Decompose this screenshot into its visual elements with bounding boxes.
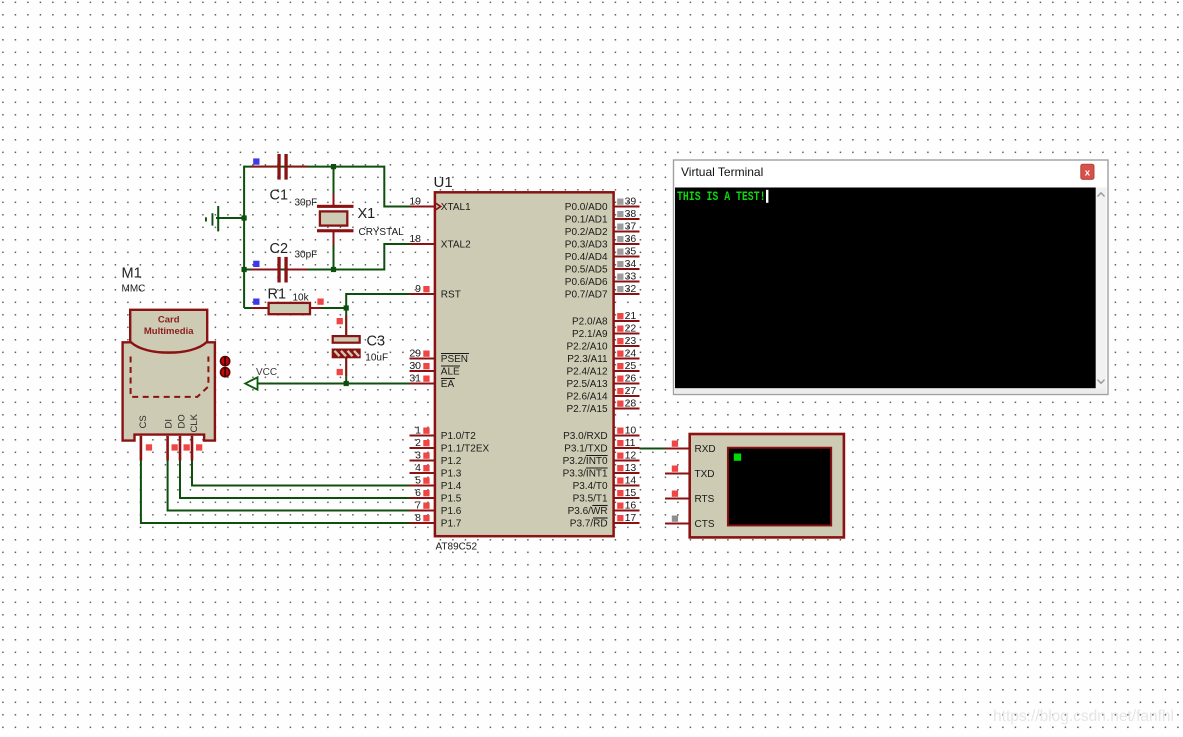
svg-text:26: 26: [625, 373, 637, 385]
svg-text:17: 17: [625, 512, 637, 524]
svg-text:35: 35: [625, 246, 637, 258]
svg-text:THIS IS A TEST!: THIS IS A TEST!: [677, 190, 766, 204]
svg-text:P1.7: P1.7: [441, 519, 462, 530]
svg-text:36: 36: [625, 233, 637, 245]
svg-text:18: 18: [409, 233, 421, 245]
svg-text:AT89C52: AT89C52: [436, 542, 478, 553]
svg-text:12: 12: [625, 450, 637, 462]
svg-text:P0.2/AD2: P0.2/AD2: [565, 227, 608, 238]
svg-text:P1.3: P1.3: [441, 469, 462, 480]
svg-text:25: 25: [625, 360, 637, 372]
svg-text:C1: C1: [270, 188, 289, 204]
svg-text:RST: RST: [441, 290, 461, 301]
svg-text:27: 27: [625, 385, 637, 397]
svg-text:32: 32: [625, 283, 637, 295]
svg-text:P3.5/T1: P3.5/T1: [573, 494, 608, 505]
svg-text:13: 13: [625, 462, 637, 474]
svg-text:38: 38: [625, 208, 637, 220]
svg-text:21: 21: [625, 310, 637, 322]
svg-text:P2.5/A13: P2.5/A13: [566, 379, 608, 390]
svg-text:RTS: RTS: [695, 494, 715, 505]
svg-text:P0.6/AD6: P0.6/AD6: [565, 277, 608, 288]
svg-text:P1.6: P1.6: [441, 506, 462, 517]
svg-text:P2.7/A15: P2.7/A15: [566, 404, 608, 415]
svg-text:U1: U1: [434, 174, 453, 191]
svg-text:1: 1: [415, 425, 421, 437]
svg-text:CLK: CLK: [189, 413, 200, 432]
svg-text:34: 34: [625, 258, 637, 270]
svg-text:P3.7/RD: P3.7/RD: [570, 519, 608, 530]
svg-text:9: 9: [415, 283, 421, 295]
svg-text:P2.2/A10: P2.2/A10: [566, 342, 608, 353]
svg-text:24: 24: [625, 348, 637, 360]
svg-text:16: 16: [625, 500, 637, 512]
svg-text:EA: EA: [441, 379, 455, 390]
svg-text:30pF: 30pF: [295, 250, 318, 261]
svg-text:M1: M1: [122, 266, 142, 282]
svg-text:P3.3/INT1: P3.3/INT1: [563, 469, 608, 480]
svg-text:3: 3: [415, 450, 421, 462]
svg-text:23: 23: [625, 335, 637, 347]
svg-text:Multimedia: Multimedia: [144, 326, 194, 337]
svg-text:P0.5/AD5: P0.5/AD5: [565, 265, 608, 276]
svg-text:6: 6: [415, 487, 421, 499]
svg-text:P2.0/A8: P2.0/A8: [572, 317, 608, 328]
svg-text:19: 19: [409, 196, 421, 208]
svg-text:P2.6/A14: P2.6/A14: [566, 392, 608, 403]
svg-text:P1.1/T2EX: P1.1/T2EX: [441, 444, 490, 455]
svg-text:P1.0/T2: P1.0/T2: [441, 431, 476, 442]
svg-text:10uF: 10uF: [365, 353, 388, 364]
svg-text:ALE: ALE: [441, 367, 460, 378]
svg-text:5: 5: [415, 475, 421, 487]
svg-text:30pF: 30pF: [295, 198, 318, 209]
svg-text:DI: DI: [164, 419, 175, 429]
svg-text:28: 28: [625, 398, 637, 410]
svg-text:P3.6/WR: P3.6/WR: [568, 506, 608, 517]
svg-text:P3.4/T0: P3.4/T0: [573, 481, 608, 492]
svg-text:33: 33: [625, 271, 637, 283]
svg-text:RXD: RXD: [695, 444, 716, 455]
svg-text:P0.0/AD0: P0.0/AD0: [565, 202, 608, 213]
svg-text:39: 39: [625, 196, 637, 208]
svg-text:P0.4/AD4: P0.4/AD4: [565, 252, 608, 263]
svg-text:2: 2: [415, 437, 421, 449]
svg-text:x: x: [1085, 168, 1091, 179]
svg-text:R1: R1: [268, 287, 287, 303]
svg-text:P0.7/AD7: P0.7/AD7: [565, 290, 608, 301]
svg-text:X1: X1: [358, 206, 376, 222]
svg-text:37: 37: [625, 221, 637, 233]
svg-text:XTAL2: XTAL2: [441, 240, 471, 251]
svg-text:P1.4: P1.4: [441, 481, 462, 492]
svg-text:22: 22: [625, 323, 637, 335]
svg-text:MMC: MMC: [122, 284, 146, 295]
svg-text:CRYSTAL: CRYSTAL: [359, 227, 405, 238]
svg-text:P2.1/A9: P2.1/A9: [572, 329, 608, 340]
svg-text:TXD: TXD: [695, 469, 715, 480]
svg-text:P3.1/TXD: P3.1/TXD: [564, 444, 607, 455]
svg-text:P1.2: P1.2: [441, 456, 462, 467]
svg-text:Card: Card: [158, 315, 180, 326]
svg-text:P2.4/A12: P2.4/A12: [566, 367, 608, 378]
svg-text:11: 11: [625, 437, 636, 449]
svg-text:VCC: VCC: [256, 367, 277, 378]
svg-text:C3: C3: [367, 334, 386, 350]
svg-text:PSEN: PSEN: [441, 354, 468, 365]
svg-text:8: 8: [415, 512, 421, 524]
svg-text:7: 7: [415, 500, 421, 512]
svg-text:P0.3/AD3: P0.3/AD3: [565, 240, 608, 251]
svg-text:CTS: CTS: [695, 519, 715, 530]
svg-text:14: 14: [625, 475, 637, 487]
svg-text:P1.5: P1.5: [441, 494, 462, 505]
svg-text:4: 4: [415, 462, 421, 474]
svg-text:Virtual Terminal: Virtual Terminal: [681, 165, 763, 179]
svg-text:P2.3/A11: P2.3/A11: [567, 354, 608, 365]
svg-text:DO: DO: [177, 414, 188, 428]
svg-text:CS: CS: [138, 415, 149, 428]
svg-text:10k: 10k: [293, 293, 310, 304]
svg-text:P3.2/INT0: P3.2/INT0: [563, 456, 608, 467]
svg-text:30: 30: [409, 360, 421, 372]
svg-text:31: 31: [409, 373, 421, 385]
svg-text:P3.0/RXD: P3.0/RXD: [563, 431, 607, 442]
svg-text:10: 10: [625, 425, 637, 437]
svg-text:29: 29: [409, 348, 421, 360]
svg-text:https://blog.csdn.net/fanfhl: https://blog.csdn.net/fanfhl: [993, 708, 1174, 725]
svg-text:P0.1/AD1: P0.1/AD1: [565, 215, 608, 226]
svg-text:15: 15: [625, 487, 637, 499]
svg-text:C2: C2: [270, 241, 289, 257]
svg-text:XTAL1: XTAL1: [441, 202, 471, 213]
